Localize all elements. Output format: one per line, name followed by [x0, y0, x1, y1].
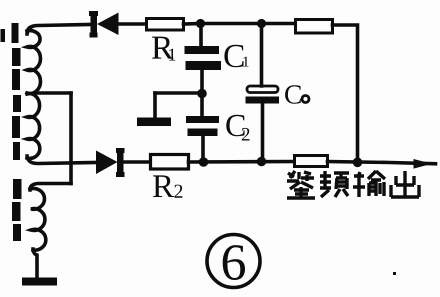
label: output text (鉴频输出 drawn as strokes)	[287, 171, 419, 198]
resistor R3 (upper right, unlabeled)	[296, 20, 333, 34]
wire: R3 to top-right corner and down right side	[333, 25, 358, 162]
diode D2 (pointing right)	[96, 148, 125, 177]
resistor R1	[147, 19, 184, 31]
wire: node M down to C2	[200, 94, 204, 118]
label R2	[153, 175, 182, 197]
wire: center tap horizontal	[36, 91, 71, 95]
wire: bottom rail R2 to R4	[189, 160, 295, 164]
wire: D2 to R2	[123, 160, 150, 164]
capacitor C2	[186, 116, 219, 136]
winding L2 (bottom secondary half)	[27, 94, 40, 159]
label C2	[226, 115, 249, 141]
label C1	[224, 45, 248, 68]
node A (junction dot)	[196, 19, 205, 28]
transformer core (dashed line)	[12, 23, 22, 241]
figure number 6 (circled)	[207, 235, 260, 288]
char 出	[391, 171, 419, 197]
wire: node B down to C0	[260, 24, 264, 87]
wire: C1 to node M	[200, 69, 204, 94]
node B (junction dot)	[257, 19, 266, 28]
wire: top rail node A to node B to resistor R3	[200, 22, 295, 26]
wire: lower tap horizontal to L3	[30, 184, 71, 191]
stray mark left edge	[1, 29, 6, 42]
diode D1 (anode right, pointing left)	[89, 11, 119, 38]
capacitor C1	[185, 46, 222, 70]
wire: ground stem down	[153, 93, 157, 118]
wire: node M to ground stem	[155, 91, 202, 95]
wire: node A down to C1	[199, 24, 203, 49]
wire: C2 down to bottom rail node C	[201, 136, 205, 162]
wire: C0 down to bottom rail node D	[261, 103, 265, 162]
wire: R1 to node A	[184, 22, 201, 26]
resistor R2	[151, 155, 189, 170]
label R1	[152, 37, 175, 61]
ground (bottom-left)	[22, 278, 57, 286]
capacitor C0 bottom plate	[246, 97, 280, 104]
winding L3 (tertiary)	[30, 188, 46, 250]
wire: bottom rail R4 to output arrow	[328, 162, 436, 164]
node E (junction dot, right side joins)	[353, 158, 363, 168]
winding L1 (top secondary half)	[27, 31, 40, 94]
char 频	[320, 171, 349, 197]
wire: D1 to R1	[118, 22, 146, 26]
wire: center tap vertical (crosses bottom rail)	[69, 93, 73, 184]
resistor R4 (lower right, unlabeled)	[295, 156, 328, 167]
capacitor C0 (top plate hollow)	[247, 86, 278, 93]
wire: top rail from coil to diode D1	[27, 25, 90, 35]
ground (middle)	[137, 118, 171, 127]
wire: L2 bottom end to bottom rail	[27, 156, 96, 164]
stray dot bottom right	[393, 272, 396, 275]
wire: L3 to bottom ground	[33, 249, 37, 278]
char 输	[353, 171, 385, 197]
node C (junction dot)	[199, 157, 209, 167]
label C0	[285, 85, 309, 104]
node M (junction dot)	[197, 89, 207, 99]
char 鉴	[287, 171, 315, 198]
node D (junction dot)	[257, 157, 267, 167]
output arrow head	[414, 159, 433, 169]
